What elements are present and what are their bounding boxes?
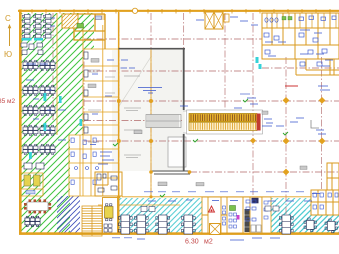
svg-text:С: С — [5, 14, 11, 23]
svg-text:Ю: Ю — [4, 50, 12, 59]
svg-text:6.30: 6.30 — [185, 239, 199, 246]
svg-text:м2: м2 — [204, 239, 213, 246]
svg-text:85 м2: 85 м2 — [0, 98, 16, 105]
